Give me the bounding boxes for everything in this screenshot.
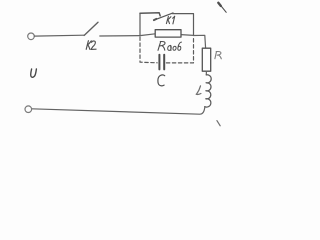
bottom wire — [32, 107, 205, 114]
wire resistor R to inductor — [205, 71, 207, 75]
switch K2 blade — [84, 22, 98, 35]
wire K1 loop top-right and right vertical — [173, 14, 194, 36]
capacitor C plates — [159, 55, 164, 70]
inductor L — [205, 75, 211, 107]
terminal bottom-left — [25, 106, 32, 113]
resistor R body — [202, 48, 210, 71]
wire K1 loop left vertical — [139, 13, 141, 35]
label K1 — [166, 16, 174, 24]
label Rдоб — [158, 42, 182, 51]
contact K1 blade — [154, 13, 173, 20]
label C — [158, 75, 165, 86]
label R — [215, 51, 221, 58]
resistor Rдоб leads — [140, 34, 194, 36]
resistor Rдоб body — [155, 30, 181, 37]
label L — [196, 86, 201, 95]
wire switch to node A — [100, 35, 140, 37]
stray pencil mark top-right — [218, 3, 226, 13]
dashed wire C branch left — [140, 37, 157, 63]
wire top-left to switch — [34, 34, 84, 37]
terminal top-left — [28, 33, 35, 40]
contact K1 fixed lead with hook — [140, 13, 160, 16]
label K2 — [86, 41, 96, 50]
stray pencil mark bottom-right — [217, 121, 220, 126]
label U — [31, 69, 37, 77]
wire node B to resistor R — [194, 35, 206, 48]
dashed wire C branch right — [166, 37, 193, 63]
